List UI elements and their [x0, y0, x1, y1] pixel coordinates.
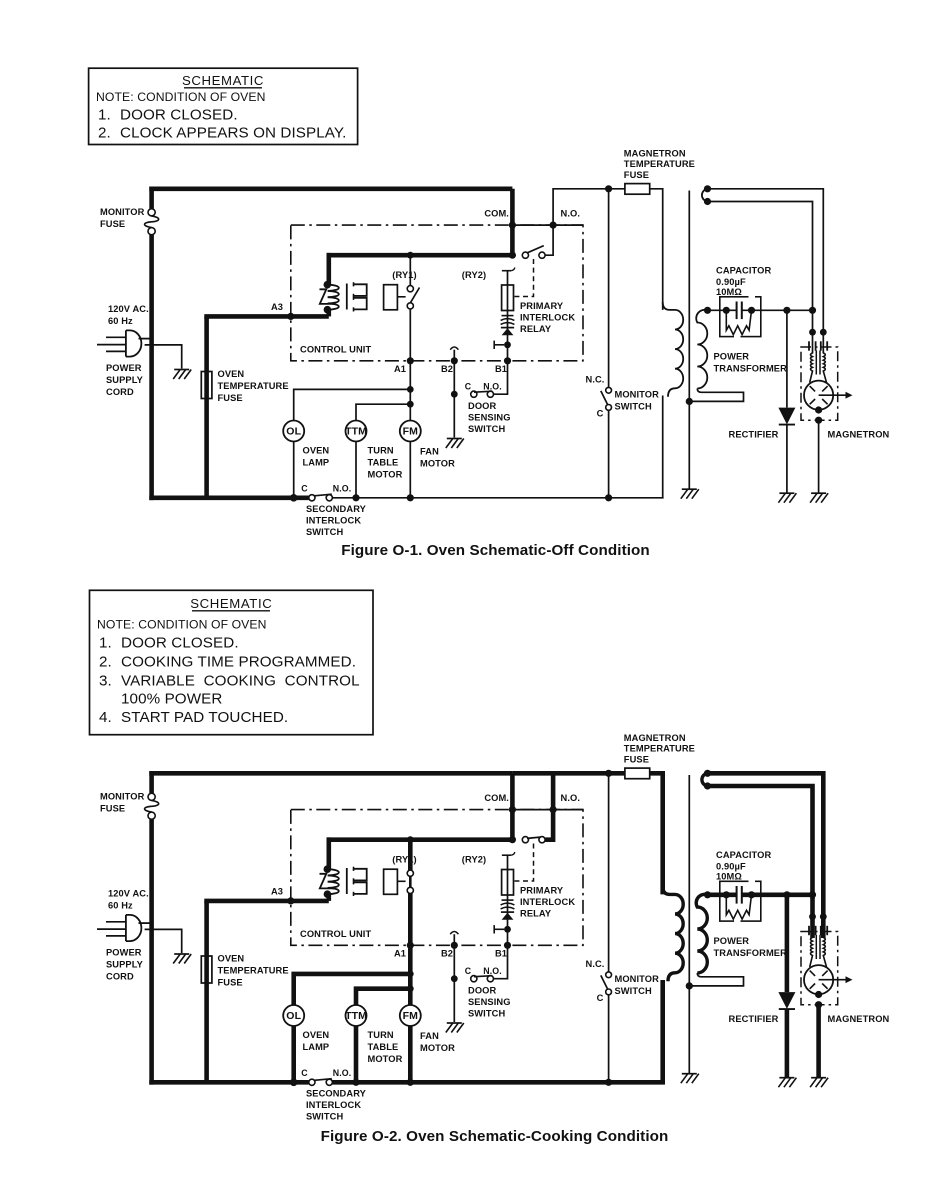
- svg-text:POWER: POWER: [106, 363, 142, 373]
- node turntable tap: [407, 401, 414, 408]
- svg-text:LAMP: LAMP: [303, 458, 330, 468]
- oven lamp OL: [283, 1005, 304, 1026]
- svg-text:MAGNETRON: MAGNETRON: [624, 149, 686, 159]
- magnetron V1: [804, 965, 833, 994]
- wire left bus lower: [149, 235, 154, 501]
- node turntable bus: [352, 1079, 359, 1086]
- svg-text:4.: 4.: [99, 709, 112, 726]
- relay contact RY1: [407, 870, 413, 893]
- svg-text:SUPPLY: SUPPLY: [106, 960, 144, 970]
- monitor fuse: [145, 793, 159, 819]
- svg-text:TABLE: TABLE: [368, 458, 399, 468]
- ground (door switch): [447, 438, 462, 440]
- wire monitor switch riser: [608, 189, 610, 387]
- node turntable bus: [352, 494, 359, 501]
- svg-text:FM: FM: [403, 426, 419, 438]
- svg-text:RECTIFIER: RECTIFIER: [729, 430, 779, 440]
- node oven lamp bus: [290, 1079, 298, 1087]
- svg-text:SENSING: SENSING: [468, 413, 511, 423]
- wire plug to bus: [139, 338, 154, 340]
- control unit transformer: [320, 281, 367, 314]
- node capacitor left: [723, 891, 730, 898]
- svg-text:PRIMARY: PRIMARY: [520, 301, 564, 311]
- magnetron temperature fuse: [625, 768, 650, 779]
- B2 stub hook: [450, 347, 458, 350]
- svg-text:CORD: CORD: [106, 972, 134, 982]
- node COM: [509, 222, 516, 229]
- wire relay feed: [327, 837, 515, 842]
- svg-text:OL: OL: [286, 1010, 301, 1022]
- wire primary return: [660, 980, 665, 1082]
- wire RY1 contact upper: [407, 252, 414, 259]
- relay coil RY1: [384, 869, 398, 894]
- wire N.O. riser to fuse: [553, 773, 625, 809]
- node secondary to capacitor: [704, 307, 711, 314]
- wire plug to chassis ground: [145, 929, 182, 953]
- svg-text:MAGNETRON: MAGNETRON: [624, 733, 686, 743]
- node door switch C: [451, 975, 458, 982]
- node capacitor right: [748, 307, 755, 314]
- wire left bus lower: [149, 819, 154, 1085]
- svg-text:2.: 2.: [98, 125, 111, 142]
- wire left bus upper: [149, 771, 154, 793]
- wire bottom bus right: [332, 497, 663, 499]
- svg-text:CAPACITOR: CAPACITOR: [716, 266, 771, 276]
- node fan bus: [407, 1079, 414, 1086]
- capacitor box: [720, 881, 761, 921]
- svg-text:MAGNETRON: MAGNETRON: [828, 430, 890, 440]
- wire plug to chassis ground: [145, 345, 182, 369]
- wire oven lamp branch: [294, 974, 411, 1005]
- ground (magnetron): [811, 1077, 826, 1079]
- wire top bus (hot): [149, 771, 512, 776]
- control unit transformer: [320, 865, 367, 898]
- magnetron V1: [804, 381, 833, 410]
- svg-text:N.O.: N.O.: [483, 966, 501, 976]
- svg-text:OVEN: OVEN: [303, 446, 330, 456]
- svg-text:NOTE: CONDITION OF OVEN: NOTE: CONDITION OF OVEN: [96, 90, 266, 104]
- svg-text:N.O.: N.O.: [561, 209, 581, 219]
- wire fuse to transformer primary: [650, 189, 663, 310]
- wire monitor switch to bus: [608, 995, 610, 1082]
- svg-text:FAN: FAN: [420, 1031, 439, 1041]
- node filament right: [820, 329, 827, 336]
- magnetron filament terminals: [812, 332, 814, 354]
- svg-text:SWITCH: SWITCH: [306, 527, 343, 537]
- svg-text:FUSE: FUSE: [624, 170, 649, 180]
- svg-text:A1: A1: [394, 364, 406, 374]
- relay coil RY2: [502, 268, 515, 345]
- wire turntable branch: [356, 404, 410, 420]
- wire COM riser: [510, 773, 515, 839]
- wire to B1: [507, 345, 509, 361]
- wire secondary return: [689, 389, 743, 402]
- resistor 10M bleeder: [726, 310, 751, 334]
- wire COM to N.O.: [512, 224, 553, 226]
- ground (power cord): [174, 953, 189, 955]
- wire A3 feed: [204, 899, 328, 904]
- svg-text:SWITCH: SWITCH: [306, 1112, 343, 1122]
- wire COM riser: [510, 189, 515, 255]
- node oven lamp bus: [290, 494, 298, 502]
- svg-text:INTERLOCK: INTERLOCK: [520, 313, 575, 323]
- dashed actuator link RY2: [515, 844, 534, 882]
- wire oven lamp to bus: [291, 1026, 296, 1082]
- svg-text:SCHEMATIC: SCHEMATIC: [190, 596, 272, 611]
- svg-text:TRANSFORMER: TRANSFORMER: [714, 364, 788, 374]
- svg-text:CONTROL UNIT: CONTROL UNIT: [300, 345, 371, 355]
- wire door switch to B1: [494, 945, 508, 978]
- relay contact RY2: [509, 836, 516, 843]
- rectifier diode: [778, 408, 795, 425]
- svg-text:SCHEMATIC: SCHEMATIC: [182, 73, 264, 88]
- wire N.O. riser to fuse: [553, 189, 625, 225]
- svg-text:SECONDARY: SECONDARY: [306, 1089, 367, 1099]
- svg-text:SWITCH: SWITCH: [468, 424, 505, 434]
- svg-text:B1: B1: [495, 364, 507, 374]
- relay contact RY1: [407, 286, 419, 309]
- svg-text:C: C: [301, 484, 308, 494]
- ground (magnetron): [811, 492, 826, 494]
- node capacitor right: [748, 891, 755, 898]
- relay coil RY2: [502, 852, 515, 929]
- wire B2 drop: [453, 361, 455, 438]
- wire to B1: [507, 929, 509, 945]
- control unit box: [291, 225, 583, 361]
- node N.O.: [550, 222, 557, 229]
- svg-text:SECONDARY: SECONDARY: [306, 504, 367, 514]
- ground (transformer core): [682, 1073, 697, 1075]
- power supply cord plug: [97, 330, 141, 356]
- svg-text:10MΩ: 10MΩ: [716, 872, 742, 882]
- node magnetron box exit: [815, 1001, 822, 1008]
- door sensing switch: [465, 382, 502, 398]
- svg-text:1.: 1.: [98, 107, 111, 124]
- svg-text:120V AC.: 120V AC.: [108, 304, 149, 314]
- svg-text:(RY2): (RY2): [462, 855, 486, 865]
- svg-text:TURN: TURN: [368, 1030, 394, 1040]
- svg-text:MONITOR: MONITOR: [100, 207, 145, 217]
- power transformer secondary winding: [696, 310, 707, 389]
- svg-text:PRIMARY: PRIMARY: [520, 886, 564, 896]
- wire HV lead: [708, 892, 737, 897]
- power transformer primary winding: [663, 302, 684, 397]
- node fan bus: [407, 494, 414, 501]
- fan motor FM: [400, 1005, 421, 1026]
- capacitor C 0.90uF: [736, 302, 738, 320]
- wire magnetron to ground: [818, 420, 820, 492]
- power transformer primary winding: [663, 887, 684, 982]
- node monitor bus: [605, 1079, 612, 1086]
- power supply cord plug: [97, 915, 141, 941]
- wire HV lead: [708, 309, 737, 311]
- svg-text:N.C.: N.C.: [586, 375, 605, 385]
- wire oven lamp branch: [294, 389, 411, 420]
- svg-text:2.: 2.: [99, 654, 112, 671]
- node HV to filament: [809, 891, 816, 898]
- thermal cutout marks RY2: [502, 899, 514, 901]
- svg-text:0.90µF: 0.90µF: [716, 862, 746, 872]
- svg-text:N.O.: N.O.: [333, 1068, 351, 1078]
- wire RY1 contact upper: [407, 836, 414, 843]
- wire plug to bus: [139, 922, 154, 924]
- wire A3 feed: [204, 314, 328, 319]
- svg-text:60 Hz: 60 Hz: [108, 901, 133, 911]
- svg-text:SWITCH: SWITCH: [468, 1009, 505, 1019]
- rectifier diode: [778, 992, 795, 1009]
- ground (transformer core): [682, 488, 697, 490]
- relay coil RY1: [384, 285, 398, 310]
- capacitor C 0.90uF: [736, 886, 738, 904]
- svg-text:FUSE: FUSE: [624, 754, 649, 764]
- svg-text:SENSING: SENSING: [468, 997, 511, 1007]
- wire monitor switch riser: [608, 773, 610, 971]
- wire filament lead lower: [708, 786, 813, 917]
- wire filament lead upper: [708, 189, 824, 332]
- svg-text:CONTROL UNIT: CONTROL UNIT: [300, 929, 371, 939]
- power transformer core: [688, 191, 690, 489]
- oven temperature fuse: [201, 372, 212, 399]
- svg-text:B1: B1: [495, 949, 507, 959]
- monitor fuse: [145, 209, 159, 235]
- monitor switch: [601, 972, 612, 995]
- svg-text:FUSE: FUSE: [218, 978, 243, 988]
- wire N.O. corner: [553, 224, 583, 226]
- resistor 10M bleeder: [726, 895, 751, 919]
- svg-text:POWER: POWER: [106, 948, 142, 958]
- magnetron temperature fuse: [625, 184, 650, 195]
- node fuse junction: [605, 185, 612, 192]
- secondary interlock switch: [301, 1068, 351, 1085]
- node RY2 cathode: [504, 926, 511, 933]
- node B2: [451, 942, 458, 949]
- node B1: [504, 357, 511, 364]
- svg-text:INTERLOCK: INTERLOCK: [306, 1100, 361, 1110]
- node turntable tap: [407, 985, 414, 992]
- svg-text:A3: A3: [271, 302, 283, 312]
- node filament left: [809, 913, 816, 920]
- oven lamp OL: [283, 421, 304, 442]
- svg-text:100% POWER: 100% POWER: [121, 691, 222, 708]
- relay contact RY2: [509, 252, 516, 259]
- wire RY2 contact to N.O.: [545, 225, 553, 255]
- svg-text:NOTE: CONDITION OF OVEN: NOTE: CONDITION OF OVEN: [97, 618, 267, 632]
- svg-text:DOOR CLOSED.: DOOR CLOSED.: [121, 635, 239, 652]
- fan motor FM: [400, 421, 421, 442]
- svg-text:Figure O-2. Oven Schematic-Coo: Figure O-2. Oven Schematic-Cooking Condi…: [321, 1128, 669, 1145]
- oven temperature fuse: [201, 956, 212, 983]
- svg-text:TEMPERATURE: TEMPERATURE: [218, 966, 289, 976]
- power transformer filament winding: [702, 189, 708, 202]
- svg-text:A3: A3: [271, 887, 283, 897]
- node A1: [407, 942, 414, 949]
- ground (door switch): [447, 1022, 462, 1024]
- wire turntable to bus: [354, 1026, 359, 1082]
- svg-text:TEMPERATURE: TEMPERATURE: [218, 381, 289, 391]
- diode RY2 branch: [501, 327, 514, 329]
- wire transformer primary riser: [326, 837, 331, 869]
- wire RY1 contact to A1: [408, 893, 413, 945]
- wire oven temperature fuse branch: [204, 901, 209, 1082]
- svg-text:MOTOR: MOTOR: [368, 1054, 403, 1064]
- svg-text:TEMPERATURE: TEMPERATURE: [624, 159, 695, 169]
- ground (power cord): [174, 369, 189, 371]
- svg-text:VARIABLE COOKING CONTROL: VARIABLE COOKING CONTROL: [121, 673, 360, 690]
- wire secondary return: [689, 973, 743, 986]
- svg-text:C: C: [597, 409, 604, 419]
- node core ground tap: [686, 398, 693, 405]
- node magnetron box exit: [815, 417, 822, 424]
- wire top bus (hot): [149, 187, 512, 192]
- svg-text:MAGNETRON: MAGNETRON: [828, 1014, 890, 1024]
- svg-text:(RY1): (RY1): [392, 270, 416, 280]
- wire rectifier drop: [786, 310, 788, 407]
- svg-text:START PAD TOUCHED.: START PAD TOUCHED.: [121, 709, 288, 726]
- svg-text:TTM: TTM: [345, 1010, 367, 1022]
- node oven lamp tap: [407, 971, 414, 978]
- node A3: [287, 897, 294, 904]
- node A1: [407, 357, 414, 364]
- svg-text:N.C.: N.C.: [586, 959, 605, 969]
- svg-text:FM: FM: [403, 1010, 419, 1022]
- turntable motor TTM: [346, 1005, 367, 1026]
- ground (rectifier): [779, 492, 794, 494]
- svg-text:OVEN: OVEN: [218, 954, 245, 964]
- svg-text:0.90µF: 0.90µF: [716, 277, 746, 287]
- svg-text:TTM: TTM: [345, 426, 367, 438]
- svg-text:INTERLOCK: INTERLOCK: [306, 516, 361, 526]
- svg-text:MONITOR: MONITOR: [100, 792, 145, 802]
- svg-text:10MΩ: 10MΩ: [716, 287, 742, 297]
- svg-text:TRANSFORMER: TRANSFORMER: [714, 948, 788, 958]
- wire transformer primary riser: [326, 253, 331, 285]
- wire door switch to B1: [494, 361, 508, 394]
- svg-text:CORD: CORD: [106, 387, 134, 397]
- svg-text:TEMPERATURE: TEMPERATURE: [624, 744, 695, 754]
- svg-text:1.: 1.: [99, 635, 112, 652]
- svg-text:OVEN: OVEN: [303, 1030, 330, 1040]
- diode RY2 branch: [501, 911, 514, 913]
- magnetron heater coil: [810, 938, 813, 968]
- svg-text:DOOR: DOOR: [468, 401, 496, 411]
- svg-text:MONITOR: MONITOR: [615, 974, 660, 984]
- wire rectifier to ground: [786, 425, 788, 493]
- wire magnetron to ground: [816, 1005, 821, 1077]
- wire turntable branch: [356, 989, 410, 1005]
- node capacitor left: [723, 307, 730, 314]
- svg-text:POWER: POWER: [714, 352, 750, 362]
- node B1: [504, 942, 511, 949]
- wire turntable to bus: [355, 442, 357, 498]
- node filament left: [809, 329, 816, 336]
- svg-text:N.O.: N.O.: [561, 793, 581, 803]
- node HV to filament: [809, 307, 816, 314]
- svg-text:N.O.: N.O.: [333, 484, 351, 494]
- svg-text:TURN: TURN: [368, 446, 394, 456]
- svg-text:COM.: COM.: [484, 793, 509, 803]
- svg-text:POWER: POWER: [714, 936, 750, 946]
- wire A1 drop: [408, 945, 413, 1082]
- node magnetron cathode: [815, 991, 822, 998]
- dashed actuator link RY2: [515, 259, 534, 297]
- svg-text:OVEN: OVEN: [218, 369, 245, 379]
- svg-text:INTERLOCK: INTERLOCK: [520, 897, 575, 907]
- wire RY2 contact to N.O.: [545, 810, 553, 840]
- thermal cutout marks RY2: [502, 315, 514, 317]
- wire filament lead lower: [708, 202, 813, 333]
- node door switch C: [451, 391, 458, 398]
- node monitor bus: [605, 494, 612, 501]
- B2 stub hook: [450, 932, 458, 935]
- wire rectifier drop: [785, 895, 790, 992]
- wire N.O. corner: [553, 809, 583, 811]
- svg-text:C: C: [465, 382, 472, 392]
- wire fuse to transformer primary: [650, 773, 663, 894]
- wire primary return: [662, 396, 664, 498]
- wire COM to N.O.: [512, 809, 553, 811]
- control unit box: [291, 810, 583, 946]
- svg-text:MOTOR: MOTOR: [420, 1043, 455, 1053]
- secondary interlock switch: [301, 484, 351, 501]
- wire RY1 contact to A1: [409, 309, 411, 361]
- svg-text:COOKING TIME PROGRAMMED.: COOKING TIME PROGRAMMED.: [121, 654, 356, 671]
- wire oven lamp to bus: [293, 442, 295, 498]
- wire bottom bus left: [149, 1080, 308, 1085]
- magnetron box: [801, 347, 838, 420]
- node COM: [509, 806, 516, 813]
- wire bottom bus left: [149, 495, 308, 500]
- svg-text:MOTOR: MOTOR: [420, 459, 455, 469]
- ground (rectifier): [779, 1077, 794, 1079]
- svg-text:TABLE: TABLE: [368, 1042, 399, 1052]
- power transformer core: [688, 775, 690, 1073]
- capacitor box: [720, 297, 761, 337]
- svg-text:Figure O-1. Oven Schematic-Off: Figure O-1. Oven Schematic-Off Condition: [341, 542, 650, 559]
- svg-text:A1: A1: [394, 949, 406, 959]
- svg-text:RELAY: RELAY: [520, 909, 552, 919]
- svg-text:COM.: COM.: [484, 209, 509, 219]
- wire oven temperature fuse branch: [204, 316, 209, 497]
- magnetron box: [801, 932, 838, 1005]
- node core ground tap: [686, 982, 693, 989]
- wire filament lead upper: [708, 773, 824, 916]
- node rectifier tap: [783, 307, 790, 314]
- svg-text:FUSE: FUSE: [100, 219, 125, 229]
- wire bottom bus right: [332, 1080, 665, 1085]
- door sensing switch: [465, 966, 502, 982]
- svg-text:LAMP: LAMP: [303, 1042, 330, 1052]
- node oven lamp tap: [407, 386, 414, 393]
- magnetron heater coil: [810, 353, 813, 383]
- node A3: [287, 313, 294, 320]
- svg-text:CAPACITOR: CAPACITOR: [716, 850, 771, 860]
- node B2: [451, 357, 458, 364]
- svg-text:C: C: [301, 1068, 308, 1078]
- node fuse junction: [605, 770, 612, 777]
- svg-text:DOOR: DOOR: [468, 986, 496, 996]
- svg-text:120V AC.: 120V AC.: [108, 889, 149, 899]
- svg-text:RECTIFIER: RECTIFIER: [729, 1014, 779, 1024]
- node RY2 cathode: [504, 341, 511, 348]
- svg-text:DOOR CLOSED.: DOOR CLOSED.: [120, 107, 238, 124]
- wire left bus upper: [149, 187, 154, 209]
- node magnetron cathode: [815, 406, 822, 413]
- svg-text:SWITCH: SWITCH: [615, 986, 652, 996]
- svg-text:MOTOR: MOTOR: [368, 470, 403, 480]
- note box 2: [90, 590, 374, 734]
- svg-text:C: C: [465, 966, 472, 976]
- svg-text:FUSE: FUSE: [218, 393, 243, 403]
